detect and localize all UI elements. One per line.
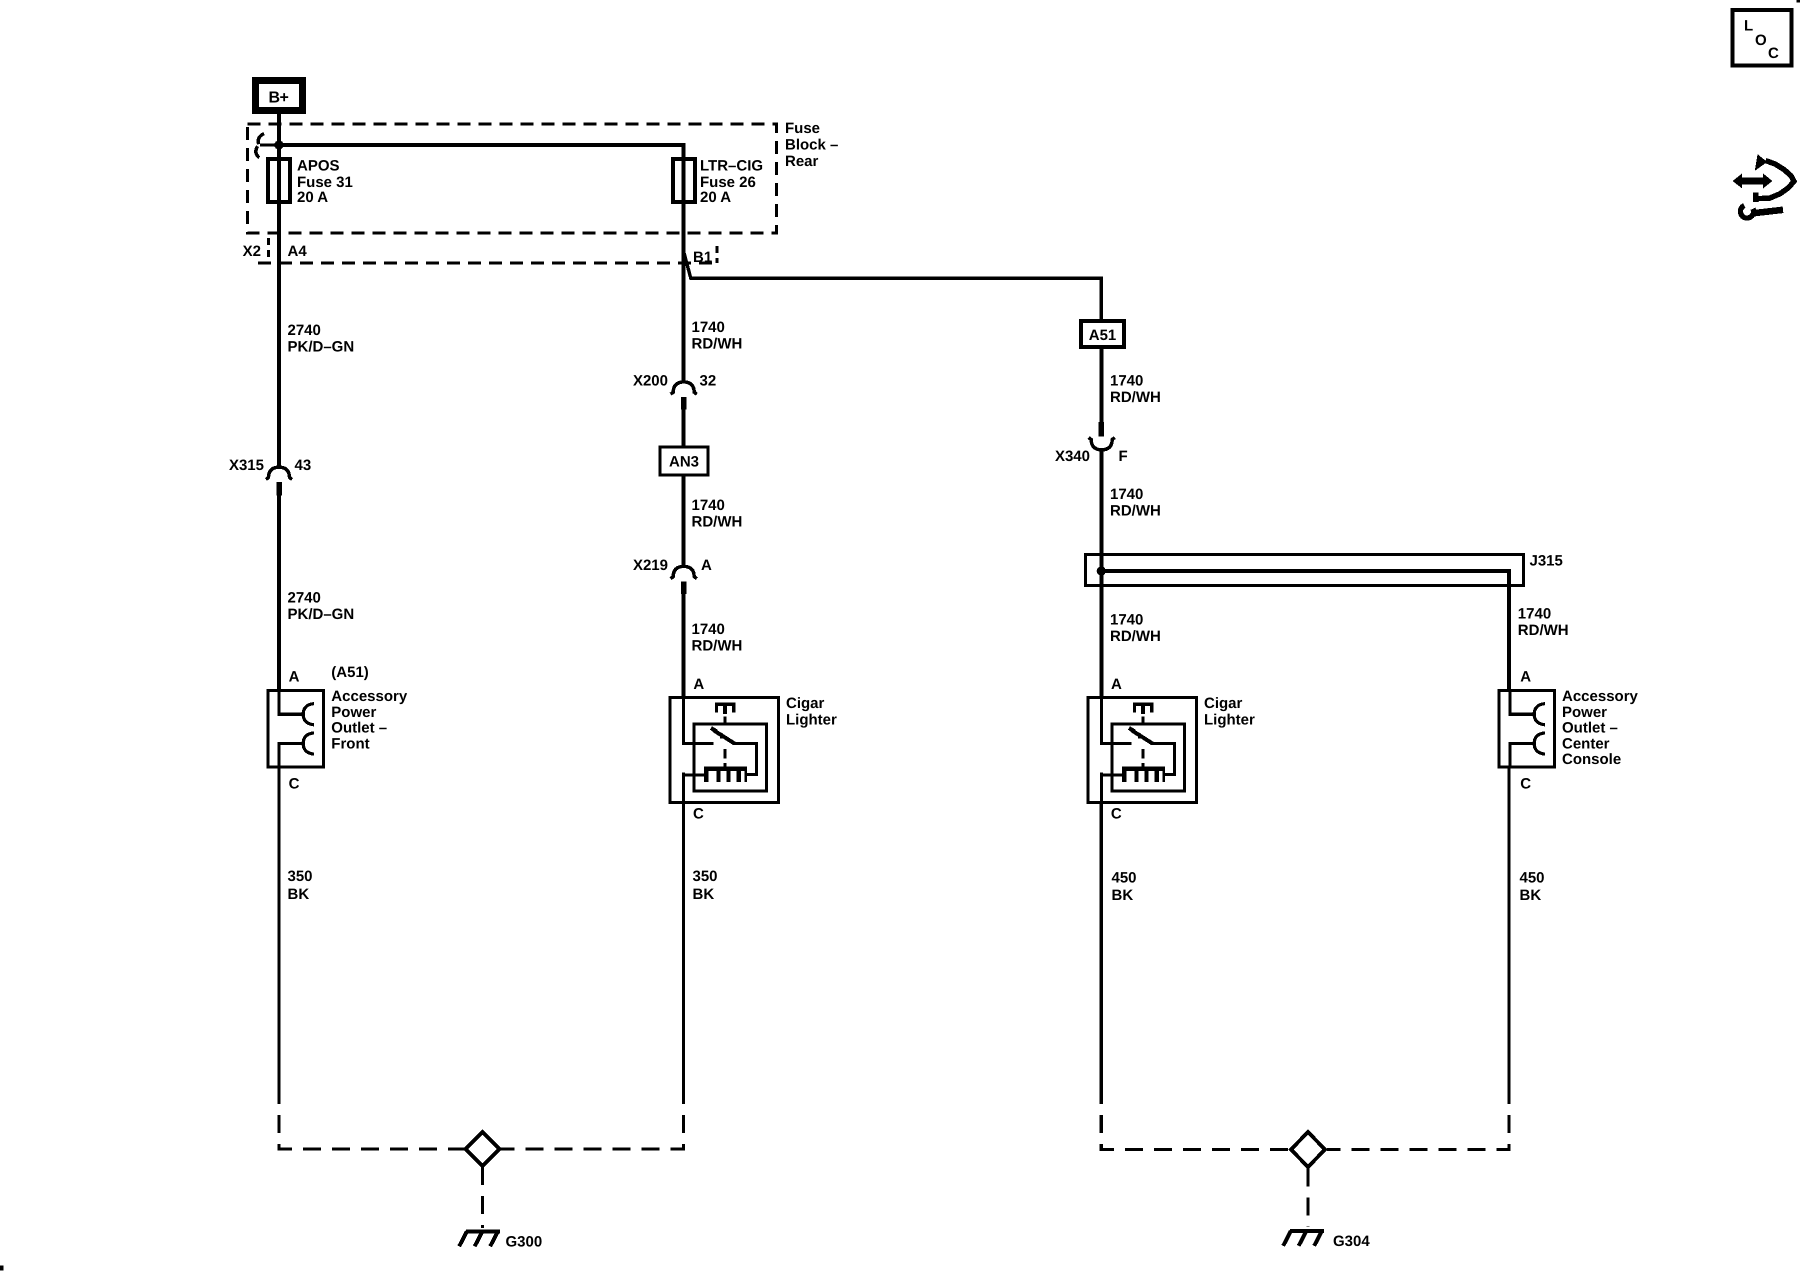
junction dot at B+ bus (274, 140, 283, 149)
svg-text:PK/D–GN: PK/D–GN (288, 339, 355, 356)
svg-text:450: 450 (1112, 870, 1137, 887)
svg-text:Rear: Rear (785, 153, 819, 170)
svg-text:Console: Console (1562, 751, 1621, 768)
wire label 2740 PK/D-GN (lower) (288, 590, 355, 624)
splice bus inside J315 (1101, 571, 1509, 691)
svg-text:C: C (1111, 806, 1122, 823)
bus bar curl (internal bus continues) (256, 134, 275, 158)
wire label 1740 RD/WH (left of J315 down) (1110, 612, 1161, 646)
svg-text:C: C (1520, 776, 1531, 793)
svg-text:B+: B+ (269, 90, 289, 107)
connector X315 (arc and tick) (266, 467, 292, 495)
svg-text:1740: 1740 (1110, 486, 1143, 503)
svg-text:X315: X315 (229, 457, 264, 474)
connector X2 pin separator left (267, 238, 270, 262)
wire X200 to AN3 (682, 410, 686, 448)
cigar lighter labels (786, 695, 837, 728)
fuse LTR-CIG Fuse 26 20 A (673, 158, 763, 207)
connector X200 (arc and tick) (671, 382, 697, 410)
ground G304 (1283, 1231, 1324, 1246)
fuse APOS Fuse 31 20 A (268, 158, 353, 207)
wire cigar lighter front to ground (solid part) (682, 803, 685, 1087)
splice diamond (right) (1291, 1132, 1325, 1167)
svg-text:BK: BK (1520, 887, 1542, 904)
cigar lighter rear labels (1204, 695, 1255, 728)
svg-text:Cigar: Cigar (786, 695, 825, 712)
svg-text:O: O (1755, 32, 1767, 49)
wire J315 down to cigar lighter (1099, 554, 1103, 697)
svg-text:C: C (1768, 45, 1779, 62)
wire label 1740 RD/WH (below A51) (1110, 373, 1161, 407)
svg-text:X200: X200 (633, 373, 668, 390)
svg-text:BK: BK (288, 886, 310, 903)
wire label 350 BK (left) (288, 868, 313, 903)
splice pack J315 box (1086, 553, 1563, 586)
svg-text:Accessory: Accessory (331, 688, 408, 705)
dashed wire outlet front to splice (279, 1086, 464, 1149)
svg-text:RD/WH: RD/WH (1110, 503, 1161, 520)
svg-text:RD/WH: RD/WH (1518, 622, 1569, 639)
svg-text:RD/WH: RD/WH (1110, 628, 1161, 645)
wire label 1740 RD/WH (above X200) (692, 319, 743, 353)
svg-text:A: A (693, 676, 704, 693)
connector X340 (tick and arc) (1089, 422, 1115, 450)
wire cigar lighter rear to ground (solid part) (1100, 803, 1103, 1087)
svg-text:A: A (1111, 676, 1122, 693)
dashed wire splice to G300 (481, 1167, 484, 1228)
svg-text:(A51): (A51) (331, 664, 369, 681)
stray mark top right (1797, 0, 1800, 3)
svg-text:Lighter: Lighter (786, 711, 837, 728)
svg-text:BK: BK (693, 886, 715, 903)
svg-text:J315: J315 (1530, 553, 1563, 570)
outlet center console labels (1562, 688, 1639, 768)
svg-text:X2: X2 (243, 243, 261, 260)
cigar lighter (front) (670, 698, 779, 803)
wire X340 to J315 (1099, 450, 1103, 555)
connector A51 box (1081, 321, 1124, 347)
svg-text:350: 350 (693, 868, 718, 885)
stray mark bottom left (0, 1266, 4, 1271)
wire A51 to X340 (1099, 347, 1103, 422)
wire B+ down to fuse block (277, 114, 281, 466)
svg-text:BK: BK (1112, 887, 1134, 904)
svg-text:350: 350 (288, 868, 313, 885)
dashed wire cigar lighter front to splice (501, 1086, 684, 1149)
wire label 1740 RD/WH (AN3 to X219) (692, 497, 743, 531)
dashed wire cigar lighter rear to splice (1101, 1086, 1289, 1150)
svg-text:Power: Power (331, 704, 376, 721)
svg-text:1740: 1740 (1518, 606, 1551, 623)
LOC reference box (1733, 10, 1792, 66)
bus wire to LTR-CIG fuse (279, 145, 684, 160)
svg-text:20 A: 20 A (700, 189, 731, 206)
wire X315 to outlet (277, 496, 281, 691)
wire X219 to cigar lighter (682, 594, 686, 698)
wire label 350 BK (middle) (693, 868, 718, 903)
svg-text:Block –: Block – (785, 136, 838, 153)
pin B1 separator (716, 246, 719, 263)
dashed wire outlet center to splice (1327, 1086, 1509, 1150)
svg-text:G300: G300 (506, 1234, 543, 1251)
fuse block label (785, 120, 838, 170)
wire label 450 BK (left) (1112, 870, 1137, 905)
svg-text:B1: B1 (693, 249, 712, 266)
accessory power outlet - front (A51) (268, 691, 324, 768)
splice diamond (left) (466, 1132, 500, 1166)
svg-text:450: 450 (1520, 870, 1545, 887)
svg-text:Cigar: Cigar (1204, 695, 1243, 712)
svg-text:Accessory: Accessory (1562, 688, 1639, 705)
svg-text:C: C (289, 776, 300, 793)
svg-text:A: A (701, 557, 712, 574)
svg-text:APOS: APOS (297, 158, 340, 175)
svg-text:1740: 1740 (692, 497, 725, 514)
svg-text:X219: X219 (633, 557, 668, 574)
svg-text:Lighter: Lighter (1204, 711, 1255, 728)
svg-text:1740: 1740 (1110, 612, 1143, 629)
connector X219 (arc and tick) (671, 566, 697, 594)
connector AN3 box (660, 447, 708, 475)
svg-text:Front: Front (331, 735, 369, 752)
wire outlet center to ground (solid part) (1507, 767, 1510, 1086)
outlet front labels (331, 664, 408, 752)
svg-text:Outlet –: Outlet – (331, 720, 387, 737)
svg-text:F: F (1119, 448, 1128, 465)
svg-text:X340: X340 (1055, 448, 1090, 465)
svg-text:Outlet –: Outlet – (1562, 720, 1618, 737)
ground G300 (459, 1232, 500, 1247)
svg-text:2740: 2740 (288, 322, 321, 339)
diagnostic icon bent arrow (1755, 154, 1794, 202)
svg-text:Power: Power (1562, 704, 1607, 721)
svg-text:43: 43 (295, 457, 312, 474)
wire label 1740 RD/WH (right branch) (1518, 606, 1569, 640)
wire label 1740 RD/WH (above cigar lighter) (692, 621, 743, 655)
fuse block - rear dashed box (248, 124, 777, 233)
svg-text:Center: Center (1562, 735, 1610, 752)
connector X2 band bottom dashed line (258, 262, 718, 265)
accessory power outlet - center console (1499, 691, 1555, 768)
wire label 2740 PK/D-GN (upper) (288, 322, 355, 356)
svg-text:A: A (289, 669, 300, 686)
wire outlet front to ground (solid part) (277, 767, 280, 1086)
svg-text:A: A (1520, 669, 1531, 686)
svg-text:A51: A51 (1089, 327, 1117, 344)
battery positive voltage B+ (252, 77, 306, 114)
wire AN3 to X219 (682, 475, 686, 566)
svg-text:RD/WH: RD/WH (692, 638, 743, 655)
svg-text:20 A: 20 A (297, 189, 328, 206)
diagnostic icon double arrow (1733, 174, 1773, 189)
dashed wire splice to G304 (1306, 1169, 1309, 1228)
svg-text:L: L (1744, 18, 1753, 35)
svg-text:RD/WH: RD/WH (1110, 389, 1161, 406)
svg-text:PK/D–GN: PK/D–GN (288, 606, 355, 623)
svg-text:1740: 1740 (1110, 373, 1143, 390)
svg-text:G304: G304 (1333, 1233, 1370, 1250)
svg-text:1740: 1740 (692, 319, 725, 336)
svg-text:RD/WH: RD/WH (692, 514, 743, 531)
svg-text:A4: A4 (288, 243, 308, 260)
svg-text:AN3: AN3 (669, 454, 699, 471)
svg-text:LTR–CIG: LTR–CIG (700, 158, 763, 175)
svg-text:C: C (693, 806, 704, 823)
svg-text:32: 32 (700, 373, 717, 390)
svg-text:2740: 2740 (288, 590, 321, 607)
svg-text:RD/WH: RD/WH (692, 336, 743, 353)
wire branch B1 to A51 connector (684, 251, 1102, 321)
diagnostic icon wrench (1740, 206, 1783, 219)
wire label 1740 RD/WH (below X340) (1110, 486, 1161, 520)
svg-text:1740: 1740 (692, 621, 725, 638)
svg-text:Fuse: Fuse (785, 120, 820, 137)
cigar lighter (rear) (1088, 698, 1197, 803)
wire label 450 BK (right) (1520, 870, 1545, 905)
wire LTR-CIG fuse down through connector (682, 160, 686, 382)
junction dot J315 (1097, 566, 1106, 575)
